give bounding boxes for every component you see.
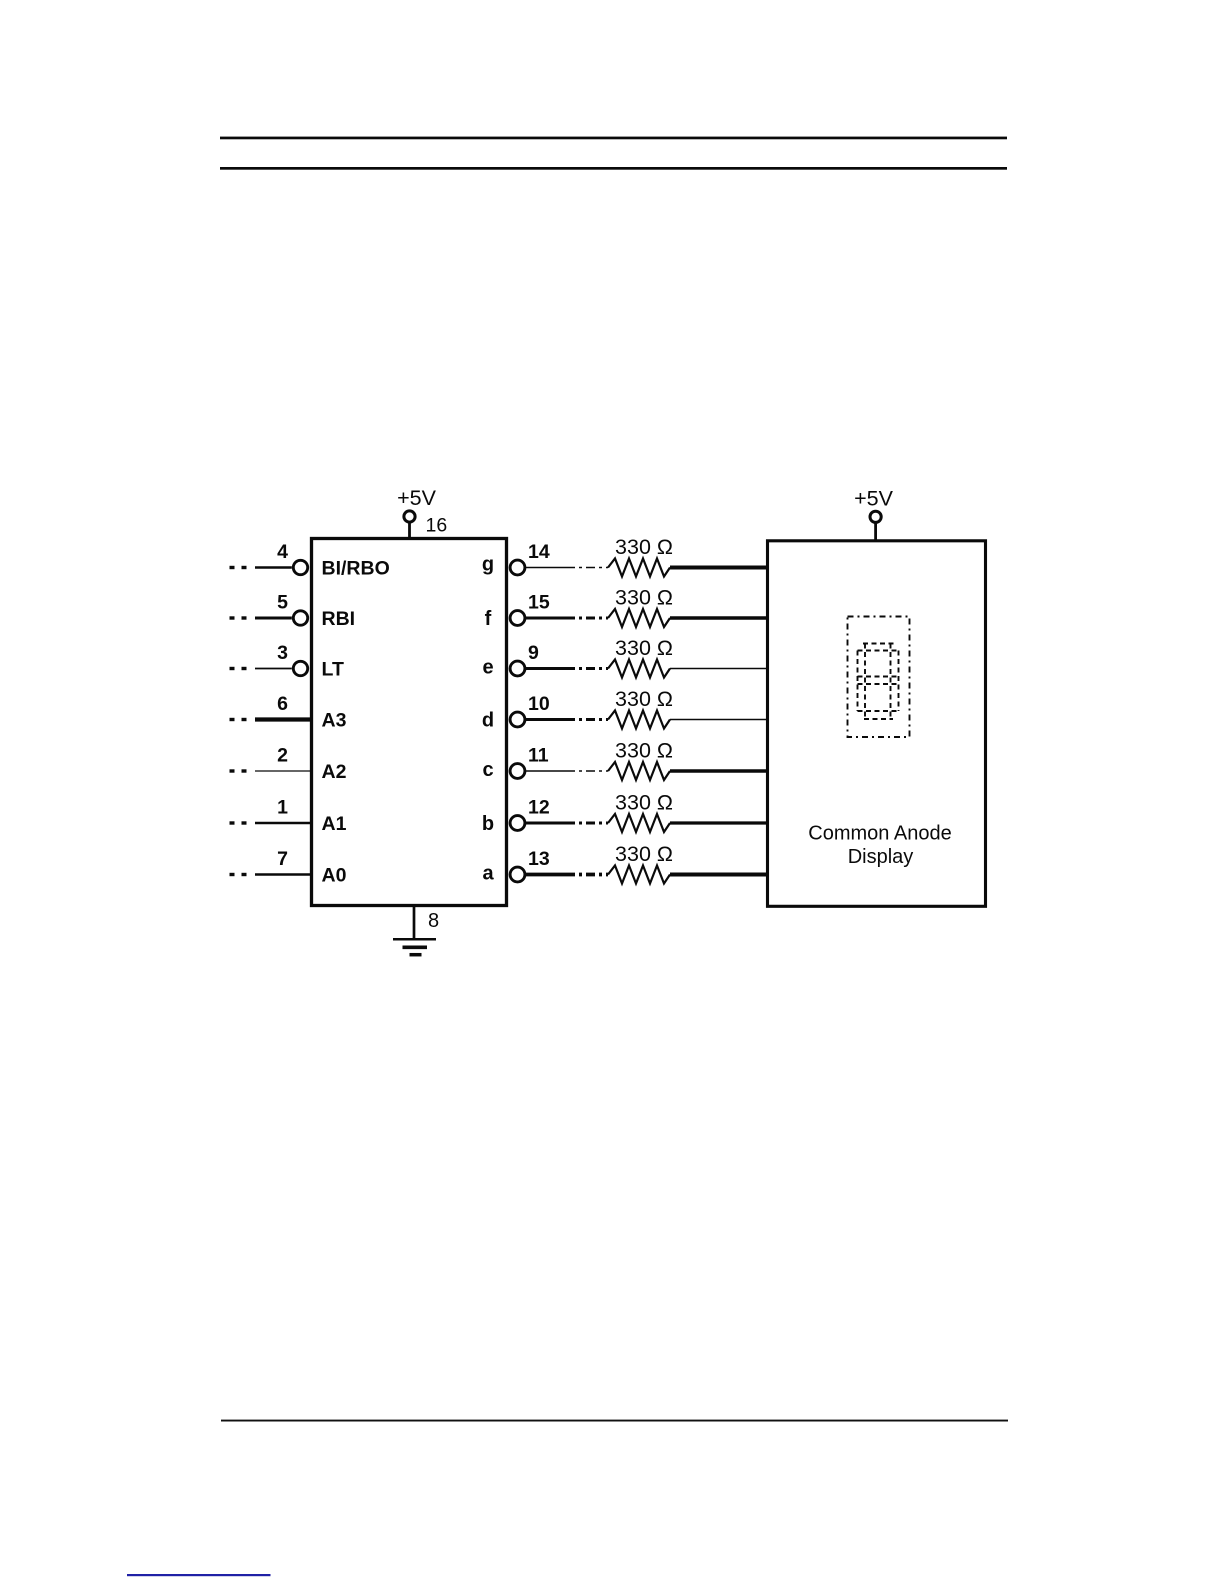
resistor R5 330 ohm (segment c) [608,762,670,780]
node: input lead dots pin 4 [230,566,247,569]
wire: pin 14 to resistor R1 [525,567,566,569]
node: input lead dots pin 5 [230,616,247,619]
wire: input lead to pin 7 (A0) [255,873,312,875]
output bubble on pin 11 (segment c) [510,764,525,779]
wire: pin 12 to resistor R6 [525,822,566,825]
wire: pin 15 to resistor R2 [525,617,566,620]
svg-text:A1: A1 [322,813,347,835]
resistor R1 330 ohm (segment g) [608,559,670,577]
wire: pin 10 to resistor R4 [525,718,566,721]
svg-text:15: 15 [528,592,550,614]
output bubble on pin 9 (segment e) [510,661,525,676]
inversion bubble on pin 3 (LT) [293,661,307,675]
svg-text:a: a [482,863,494,885]
svg-text:d: d [482,710,494,732]
svg-text:2: 2 [277,745,288,767]
inversion bubble on pin 5 (RBI) [293,611,307,625]
svg-text:e: e [482,657,493,679]
svg-text:5: 5 [277,592,288,614]
wire: input lead to pin 5 (RBI) [255,617,292,620]
wire: +5V to decoder pin 16 [408,522,411,539]
resistor R2 330 ohm (segment f) [608,609,670,627]
wire: pin 11 to resistor R5 [525,770,566,772]
wire: input lead to pin 1 (A1) [255,822,312,824]
wire: resistor R5 to display segment c [670,769,768,772]
wire: resistor R1 to display segment g [670,566,768,570]
svg-text:12: 12 [528,797,550,819]
wire: +5V to display common anode [874,523,877,541]
svg-text:c: c [482,759,493,781]
svg-text:RBI: RBI [322,608,356,630]
wire: input lead to pin 3 (LT) [255,668,292,670]
svg-text:14: 14 [528,541,550,563]
wire: input lead to pin 2 (A2) [255,770,312,772]
header rule (upper) [220,137,1007,140]
svg-text:330 Ω: 330 Ω [615,739,673,763]
svg-text:11: 11 [528,745,549,767]
svg-text:A3: A3 [322,709,347,731]
resistor R7 330 ohm (segment a) [608,866,670,884]
power +5V terminal circle (decoder) [404,511,415,522]
wire: resistor R4 to display segment d [670,719,768,721]
footer rule [221,1420,1008,1422]
svg-text:330 Ω: 330 Ω [615,636,673,660]
node: input lead dots pin 2 [230,769,247,772]
svg-text:LT: LT [322,658,344,680]
inversion bubble on pin 4 (BI/RBO) [293,560,307,574]
svg-text:330 Ω: 330 Ω [615,535,673,559]
svg-text:330 Ω: 330 Ω [615,791,673,815]
svg-text:10: 10 [528,693,550,715]
output bubble on pin 10 (segment d) [510,712,525,727]
wire: resistor R6 to display segment b [670,821,768,824]
header rule (lower) [220,167,1007,170]
svg-text:13: 13 [528,848,550,870]
svg-text:A2: A2 [322,761,347,783]
footer hyperlink underline [127,1574,271,1576]
resistor R3 330 ohm (segment e) [608,660,670,678]
ground symbol [393,939,436,954]
svg-text:1: 1 [277,797,288,819]
wire: input lead to pin 4 (BI/RBO) [255,566,292,569]
svg-text:+5V: +5V [854,487,894,511]
wire: resistor R3 to display segment e [670,668,768,670]
svg-text:9: 9 [528,642,539,664]
svg-text:6: 6 [277,693,288,715]
node: input lead dots pin 3 [230,667,247,670]
resistor R4 330 ohm (segment d) [608,711,670,729]
svg-text:330 Ω: 330 Ω [615,687,673,711]
svg-text:4: 4 [277,541,288,563]
svg-text:16: 16 [426,515,448,537]
output bubble on pin 15 (segment f) [510,611,525,626]
svg-text:b: b [482,813,494,835]
svg-text:7: 7 [277,848,288,870]
svg-text:Common Anode: Common Anode [808,823,951,845]
svg-text:g: g [482,554,494,576]
output bubble on pin 12 (segment b) [510,816,525,831]
wire: pin 13 to resistor R7 [525,873,566,877]
svg-text:+5V: +5V [397,486,437,510]
svg-text:3: 3 [277,642,288,664]
wire: input lead to pin 6 (A3) [255,717,312,721]
svg-text:330 Ω: 330 Ω [615,842,673,866]
svg-text:8: 8 [428,910,439,932]
common anode display module body [768,541,986,907]
node: input lead dots pin 6 [230,718,247,721]
decoder IC U1 (BCD to 7-segment, 7447) body [312,539,507,906]
power +5V terminal circle (display) [870,511,881,522]
wire: resistor R2 to display segment f [670,616,768,619]
svg-text:Display: Display [848,846,914,868]
svg-text:f: f [485,608,492,630]
resistor R6 330 ohm (segment b) [608,814,670,832]
seven segment digit outline (dashed) [848,617,910,738]
output bubble on pin 14 (segment g) [510,560,525,575]
svg-text:330 Ω: 330 Ω [615,586,673,610]
svg-text:BI/RBO: BI/RBO [322,557,390,579]
node: input lead dots pin 7 [230,873,247,876]
svg-text:A0: A0 [322,864,347,886]
wire: decoder pin 8 to ground [413,906,416,939]
output bubble on pin 13 (segment a) [510,867,525,882]
wire: resistor R7 to display segment a [670,873,768,877]
wire: pin 9 to resistor R3 [525,667,566,670]
node: input lead dots pin 1 [230,821,247,824]
